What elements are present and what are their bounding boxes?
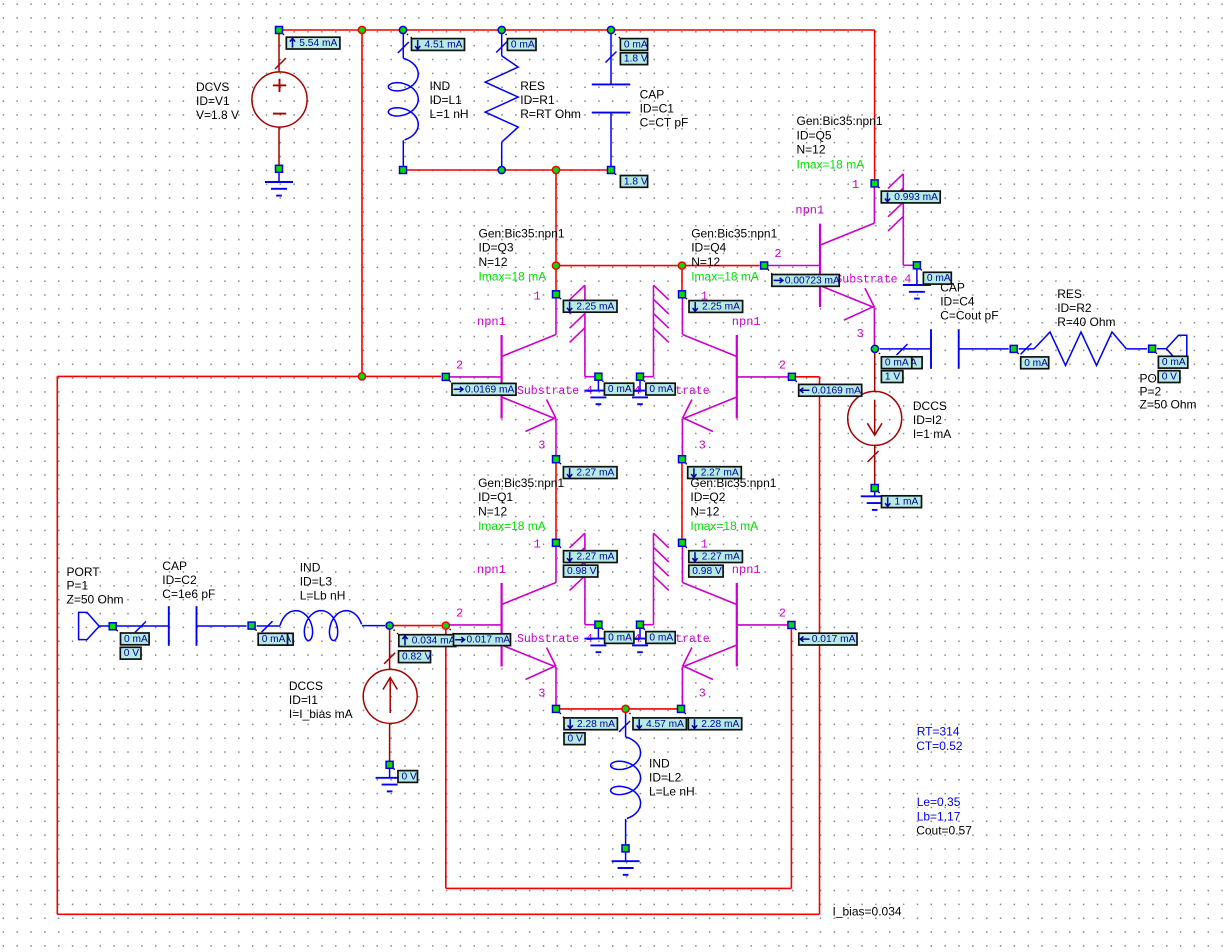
leader port P1 — [117, 630, 121, 633]
transistor Q2 — [736, 583, 738, 667]
svg-text:0.017 mA: 0.017 mA — [812, 634, 856, 645]
svg-text:Imax=18 mA: Imax=18 mA — [478, 519, 546, 533]
svg-text:IND: IND — [649, 757, 670, 771]
probe box Q5 base — [772, 275, 839, 287]
terminal Q2 emitter — [678, 705, 685, 712]
svg-text:1.8 V: 1.8 V — [624, 176, 648, 187]
svg-text:C=Cout pF: C=Cout pF — [940, 309, 998, 323]
svg-text:Lb=1.17: Lb=1.17 — [917, 809, 961, 823]
svg-text:ID=L3: ID=L3 — [300, 575, 333, 589]
leader C2 right — [256, 630, 260, 634]
ground Q1 substrate — [597, 629, 599, 639]
node junction top-left — [358, 26, 365, 33]
leader Q5 base — [768, 270, 773, 276]
svg-text:ID=C4: ID=C4 — [940, 295, 975, 309]
wire VCC down to Q5 collector — [874, 30, 876, 179]
terminal I2 bottom — [871, 485, 878, 492]
probe box I1 voltage — [399, 651, 431, 663]
probe box Q2 collector voltage — [689, 565, 723, 577]
svg-text:N=12: N=12 — [691, 255, 720, 269]
ground below I2 — [874, 492, 876, 496]
svg-text:N=12: N=12 — [478, 504, 507, 518]
wire VCC top rail — [279, 29, 875, 31]
probe box Q2 emitter — [688, 718, 741, 730]
svg-text:4.57 mA: 4.57 mA — [646, 719, 684, 730]
svg-text:0 V: 0 V — [568, 734, 583, 745]
resistor R2 — [1019, 348, 1034, 350]
svg-text:ID=C1: ID=C1 — [640, 102, 675, 116]
probe box Q1 emitter — [564, 718, 617, 730]
leader C1 — [615, 34, 621, 39]
probe box port P1 current — [121, 633, 150, 645]
leader L2 top — [630, 713, 633, 718]
ground Q5 substrate — [916, 269, 918, 285]
svg-text:IND: IND — [300, 561, 321, 575]
probe box Q3 emitter — [563, 467, 617, 479]
svg-text:R=40 Ohm: R=40 Ohm — [1057, 315, 1115, 329]
probe box R1 current — [507, 39, 536, 51]
inductor L2 — [625, 713, 627, 737]
leader Q2 base — [795, 629, 799, 633]
svg-text:N=12: N=12 — [479, 255, 508, 269]
DC voltage source V1 — [278, 33, 280, 72]
probe box Q4 substrate — [646, 383, 675, 395]
svg-text:4.51 mA: 4.51 mA — [425, 40, 463, 51]
svg-text:ID=Q3: ID=Q3 — [479, 241, 514, 255]
port P2 — [1166, 335, 1187, 362]
terminal Q5 collector — [871, 180, 878, 187]
svg-text:IND: IND — [430, 79, 451, 93]
probe box Q2 substrate — [646, 632, 675, 644]
probe box I1 bottom voltage — [398, 771, 418, 783]
svg-text:Substrate 4: Substrate 4 — [835, 273, 911, 286]
leader Q3 substrate — [602, 381, 605, 383]
leader I2 bottom — [879, 492, 882, 496]
svg-text:Substrate 4: Substrate 4 — [517, 633, 593, 646]
svg-text:2: 2 — [456, 358, 463, 372]
svg-text:3: 3 — [699, 686, 706, 700]
leader L1 — [407, 34, 413, 39]
probe box Q5 collector — [881, 191, 940, 203]
probe box Q4 emitter — [688, 467, 742, 479]
wire input node to Q1 base — [390, 625, 446, 627]
terminal R2 port P2 — [1149, 345, 1156, 352]
svg-text:0 mA: 0 mA — [649, 384, 673, 395]
svg-text:2.25 mA: 2.25 mA — [702, 302, 740, 313]
probe box Q5 substrate — [923, 272, 951, 284]
wire top bias rail — [403, 169, 611, 171]
probe box V1 current — [286, 37, 340, 49]
leader Q2 collector — [686, 547, 689, 551]
svg-text:Imax=18 mA: Imax=18 mA — [797, 157, 865, 171]
svg-text:RES: RES — [1057, 287, 1082, 301]
ground Q3 substrate — [597, 381, 599, 391]
svg-text:Z=50 Ohm: Z=50 Ohm — [1140, 398, 1197, 412]
probe box C1 current — [620, 39, 647, 51]
capacitor C2 — [168, 606, 170, 646]
svg-text:0 V: 0 V — [402, 772, 417, 783]
svg-text:L=Lb nH: L=Lb nH — [300, 589, 346, 603]
terminal Q1 collector — [553, 539, 560, 546]
probe box port P2 current — [1158, 356, 1187, 368]
probe box Q3 collector — [563, 300, 617, 312]
svg-text:npn1: npn1 — [795, 204, 824, 218]
node C1 top — [607, 26, 614, 33]
svg-text:3: 3 — [538, 438, 545, 452]
wire bias drop — [555, 170, 557, 266]
probe box L2 current — [633, 718, 686, 730]
svg-text:1 mA: 1 mA — [895, 497, 919, 508]
svg-text:ID=I1: ID=I1 — [289, 693, 318, 707]
DCCS I2 — [874, 353, 876, 391]
terminal I1 bottom — [386, 761, 393, 768]
svg-text:V=1.8 V: V=1.8 V — [196, 108, 239, 122]
svg-text:2: 2 — [779, 358, 786, 372]
wire inner loop right Q2 base — [790, 629, 792, 888]
node input L3 — [386, 622, 393, 629]
leader Q2 substrate — [644, 629, 646, 631]
probe box I2 current — [882, 496, 922, 508]
wire to Q4 collector — [681, 266, 683, 290]
svg-text:L=1 nH: L=1 nH — [430, 107, 469, 121]
svg-text:Imax=18 mA: Imax=18 mA — [479, 270, 547, 284]
svg-text:0.0169 mA: 0.0169 mA — [465, 384, 514, 395]
svg-text:Z=50 Ohm: Z=50 Ohm — [67, 592, 124, 606]
svg-text:Le=0.35: Le=0.35 — [917, 795, 961, 809]
leader Q3 collector — [560, 298, 564, 301]
terminal Q3 emitter — [553, 456, 560, 463]
leader Q5 collector — [879, 187, 882, 192]
svg-text:0.98 V: 0.98 V — [567, 566, 597, 577]
svg-text:CAP: CAP — [640, 88, 665, 102]
svg-text:L=Le nH: L=Le nH — [649, 785, 695, 799]
terminal Q4 emitter — [679, 456, 686, 463]
leader Q3 emitter — [560, 463, 564, 467]
DCCS I1 — [389, 630, 391, 669]
svg-text:Gen:Bic35:npn1: Gen:Bic35:npn1 — [691, 226, 777, 240]
node Q5 emitter — [871, 345, 878, 352]
svg-text:0.00723 mA: 0.00723 mA — [785, 275, 840, 286]
svg-text:0.82 V: 0.82 V — [402, 652, 432, 663]
capacitor C4 — [880, 348, 931, 350]
terminal Q2 base — [788, 622, 795, 629]
node Q3 collector rail — [552, 262, 559, 269]
svg-text:Gen:Bic35:npn1: Gen:Bic35:npn1 — [479, 226, 565, 240]
leader R2 right — [1156, 353, 1158, 357]
probe box I1 current — [399, 635, 456, 647]
svg-text:C=1e6 pF: C=1e6 pF — [162, 587, 215, 601]
leader input node — [394, 630, 399, 635]
terminal Q2 substrate — [637, 621, 644, 628]
wire inner loop left — [445, 626, 447, 889]
wire Q3 emitter to Q1 collector — [555, 464, 557, 539]
svg-text:1: 1 — [534, 290, 541, 304]
terminal Q3 substrate — [595, 373, 602, 380]
probe box Q2 collector — [689, 551, 743, 563]
ground below L2 — [625, 852, 627, 861]
svg-text:DCCS: DCCS — [913, 399, 947, 413]
svg-text:0 mA: 0 mA — [1162, 357, 1186, 368]
wire port1 to C2 — [99, 625, 169, 627]
node base rail left — [358, 373, 365, 380]
svg-text:PORT: PORT — [67, 565, 101, 579]
capacitor C1 — [610, 34, 612, 84]
node Q1 base — [442, 622, 449, 629]
svg-text:ID=I2: ID=I2 — [913, 413, 942, 427]
svg-text:0 mA: 0 mA — [927, 273, 951, 284]
svg-text:CAP: CAP — [162, 559, 187, 573]
svg-text:N=12: N=12 — [690, 504, 719, 518]
probe box Q1 emitter voltage — [564, 733, 585, 745]
svg-text:1: 1 — [852, 178, 859, 192]
svg-text:R=RT Ohm: R=RT Ohm — [520, 107, 581, 121]
wire R2 to port P2 — [1157, 348, 1166, 350]
svg-text:DCVS: DCVS — [196, 80, 229, 94]
svg-text:0 mA: 0 mA — [608, 384, 632, 395]
terminal Q2 collector — [679, 539, 686, 546]
svg-text:ID=L1: ID=L1 — [430, 93, 463, 107]
svg-text:0 mA: 0 mA — [511, 40, 535, 51]
svg-text:2.27 mA: 2.27 mA — [576, 468, 614, 479]
resistor R1 — [501, 34, 503, 56]
leader Q5 emitter node — [879, 353, 883, 357]
svg-text:3: 3 — [699, 438, 706, 452]
svg-text:2.27 mA: 2.27 mA — [701, 468, 739, 479]
ground Q2 substrate — [639, 629, 641, 639]
inductor L1 — [402, 34, 404, 58]
svg-text:2: 2 — [456, 606, 463, 620]
svg-text:ID=Q5: ID=Q5 — [797, 128, 832, 142]
node emitter rail L2 — [622, 705, 629, 712]
probe box C2 current — [258, 633, 287, 645]
terminal C2 L3 — [248, 622, 255, 629]
leader Q4 substrate — [644, 381, 646, 383]
inductor L3 — [257, 625, 280, 627]
node bias drop — [552, 166, 559, 173]
transistor Q4 — [736, 335, 738, 419]
terminal V1 top — [276, 27, 283, 34]
probe box C1 voltage top — [620, 53, 647, 65]
svg-text:npn1: npn1 — [732, 315, 761, 329]
svg-text:I_bias=0.034: I_bias=0.034 — [833, 905, 902, 919]
leader C1 bottom — [615, 174, 621, 176]
svg-text:Imax=18 mA: Imax=18 mA — [691, 270, 759, 284]
svg-text:0.0169 mA: 0.0169 mA — [812, 385, 861, 396]
probe box Q4 base — [799, 384, 862, 396]
svg-text:0 mA: 0 mA — [885, 358, 909, 369]
svg-text:Gen:Bic35:npn1: Gen:Bic35:npn1 — [797, 114, 883, 128]
wire outer loop bottom — [57, 913, 819, 915]
svg-text:0 mA: 0 mA — [649, 633, 673, 644]
terminal Q1 emitter — [553, 705, 560, 712]
wire Q4 emitter to Q2 collector — [681, 464, 683, 539]
svg-text:1: 1 — [701, 538, 708, 552]
terminal C1 bottom — [608, 167, 615, 174]
svg-text:0.017 mA: 0.017 mA — [467, 635, 511, 646]
ground below V1 — [278, 173, 280, 182]
node L1 top — [399, 26, 406, 33]
probe box Q2 base — [799, 633, 857, 645]
probe box Q3 substrate — [604, 383, 633, 395]
probe box C4 left current — [881, 357, 911, 369]
svg-text:npn1: npn1 — [477, 315, 506, 329]
svg-text:2.27 mA: 2.27 mA — [577, 552, 615, 563]
svg-text:npn1: npn1 — [732, 563, 761, 577]
probe box Q1 base — [454, 634, 511, 646]
svg-text:ID=Q4: ID=Q4 — [691, 241, 726, 255]
terminal Q3 collector — [553, 291, 560, 298]
svg-text:0 mA: 0 mA — [608, 633, 632, 644]
svg-text:N=12: N=12 — [797, 143, 826, 157]
svg-text:1: 1 — [534, 538, 541, 552]
probe box port P1 voltage — [120, 647, 141, 659]
probe box Q5 emitter hidden — [890, 357, 923, 369]
leader Q1 substrate — [602, 629, 605, 631]
port P1 — [79, 612, 100, 639]
svg-text:Imax=18 mA: Imax=18 mA — [690, 519, 758, 533]
leader Q1 base — [450, 629, 454, 634]
svg-text:ID=V1: ID=V1 — [196, 94, 230, 108]
terminal V1 bottom — [276, 165, 283, 172]
probe box Q1 substrate — [605, 632, 634, 644]
svg-text:ID=R2: ID=R2 — [1057, 301, 1092, 315]
node Q4 collector rail — [678, 262, 685, 269]
svg-text:3: 3 — [857, 327, 864, 341]
leader C4 right — [1018, 353, 1021, 357]
svg-text:DCCS: DCCS — [289, 679, 323, 693]
svg-text:2.28 mA: 2.28 mA — [701, 719, 739, 730]
leader Q4 base — [796, 381, 799, 385]
terminal Q1 substrate — [595, 621, 602, 628]
svg-text:2.25 mA: 2.25 mA — [576, 301, 614, 312]
terminal Q3 base — [442, 373, 449, 380]
probe box L3 left current — [264, 633, 293, 645]
svg-text:2.28 mA: 2.28 mA — [577, 719, 615, 730]
svg-text:ID=Q2: ID=Q2 — [690, 490, 725, 504]
terminal L2 bottom — [622, 845, 629, 852]
svg-text:npn1: npn1 — [477, 563, 506, 577]
terminal Q4 substrate — [637, 373, 644, 380]
svg-text:2: 2 — [779, 606, 786, 620]
terminal Q4 collector — [679, 291, 686, 298]
wire outer loop right — [819, 377, 821, 915]
probe box C4 left voltage — [881, 371, 903, 383]
wire Q3 base rail — [57, 375, 441, 377]
svg-text:1.8 V: 1.8 V — [624, 54, 648, 65]
svg-text:I=1 mA: I=1 mA — [913, 427, 951, 441]
probe box C4 right — [1021, 357, 1049, 369]
leader Q1 emitter — [560, 713, 564, 718]
svg-text:RT=314: RT=314 — [917, 724, 960, 738]
wire Q4 base to outer loop — [796, 376, 819, 378]
transistor Q5 — [819, 224, 821, 308]
leader Q4 emitter — [686, 463, 688, 467]
svg-text:0.993 mA: 0.993 mA — [894, 192, 938, 203]
probe box port P2 voltage — [1158, 371, 1180, 383]
transistor Q1 — [501, 583, 503, 667]
wire collector rail — [556, 265, 760, 267]
probe box C1 voltage bottom — [620, 176, 647, 188]
svg-text:0.034 mA: 0.034 mA — [412, 636, 456, 647]
wire inner loop bottom — [446, 887, 792, 889]
svg-text:5.54 mA: 5.54 mA — [299, 38, 337, 49]
svg-text:ID=C2: ID=C2 — [162, 573, 197, 587]
leader Q1 collector — [560, 547, 564, 551]
leader Q3 base — [450, 381, 453, 384]
leader Q4 collector — [686, 298, 690, 301]
svg-text:0 mA: 0 mA — [124, 634, 148, 645]
probe box L1 current — [412, 39, 465, 51]
probe box Q1 collector voltage — [564, 565, 598, 577]
probe box Q1 collector — [564, 551, 618, 563]
leader R1 — [506, 34, 509, 39]
terminal Q4 base — [788, 373, 795, 380]
probe box Q3 base — [452, 383, 516, 395]
svg-text:ID=Q1: ID=Q1 — [478, 490, 513, 504]
leader V1 top — [283, 34, 288, 38]
svg-text:ID=R1: ID=R1 — [520, 93, 555, 107]
svg-text:0 mA: 0 mA — [624, 40, 648, 51]
terminal L1 bottom — [400, 167, 407, 174]
leader Q2 emitter — [685, 713, 688, 718]
svg-text:C=CT pF: C=CT pF — [640, 116, 689, 130]
svg-text:0.98 V: 0.98 V — [692, 566, 722, 577]
wire to Q3 collector — [555, 266, 557, 290]
terminal C4 R2 — [1010, 345, 1017, 352]
svg-text:0 mA: 0 mA — [1024, 358, 1048, 369]
svg-text:Substrate 4: Substrate 4 — [517, 385, 593, 398]
terminal port P1 — [109, 623, 116, 630]
svg-text:1 V: 1 V — [885, 372, 900, 383]
transistor Q3 — [501, 335, 503, 419]
wire outer loop left — [56, 376, 58, 914]
svg-text:2.27 mA: 2.27 mA — [702, 552, 740, 563]
node R1 top — [498, 26, 505, 33]
svg-text:ID=L2: ID=L2 — [649, 771, 682, 785]
terminal Q5 base — [761, 262, 768, 269]
svg-text:0 V: 0 V — [1162, 372, 1177, 383]
svg-text:I=I_bias mA: I=I_bias mA — [289, 707, 353, 721]
svg-text:CT=0.52: CT=0.52 — [916, 739, 963, 753]
svg-text:2: 2 — [774, 247, 781, 261]
wire junction A down left column — [361, 30, 363, 376]
svg-text:Gen:Bic35:npn1: Gen:Bic35:npn1 — [478, 476, 564, 490]
svg-text:0 V: 0 V — [124, 648, 139, 659]
terminal Q5 substrate — [913, 262, 920, 269]
ground below I1 — [389, 769, 391, 778]
leader I1 bottom — [394, 769, 398, 771]
probe box Q4 collector — [689, 301, 743, 313]
svg-text:Cout=0.57: Cout=0.57 — [916, 824, 972, 838]
svg-text:P=2: P=2 — [1140, 385, 1162, 399]
svg-text:3: 3 — [538, 686, 545, 700]
leader Q5 substrate — [921, 269, 924, 273]
svg-text:RES: RES — [520, 79, 545, 93]
svg-text:P=1: P=1 — [67, 579, 89, 593]
ground Q4 substrate — [639, 381, 641, 391]
node R1 bottom — [498, 166, 505, 173]
wire emitter rail — [556, 708, 681, 710]
svg-text:0 mA: 0 mA — [262, 634, 286, 645]
